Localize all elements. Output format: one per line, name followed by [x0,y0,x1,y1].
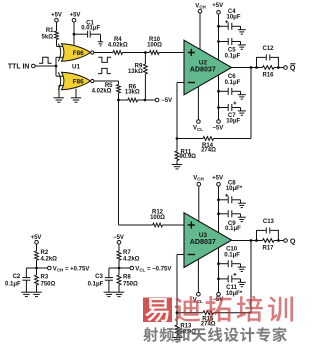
svg-text:10μF*: 10μF* [226,291,243,297]
svg-text:10μF*: 10μF* [226,186,243,192]
svg-text:0.1μF: 0.1μF [225,80,241,86]
svg-text:+5V: +5V [212,3,223,9]
svg-text:0.01μF: 0.01μF [81,26,100,32]
svg-text:13kΩ: 13kΩ [125,89,140,95]
svg-text:+5V: +5V [70,13,81,19]
svg-text:10μF: 10μF [226,119,240,125]
svg-text:+5V: +5V [51,13,62,19]
svg-text:274Ω: 274Ω [201,322,216,328]
svg-text:C2: C2 [13,274,21,280]
svg-text:0.1μF: 0.1μF [5,281,21,287]
svg-text:0.1μF: 0.1μF [224,253,240,259]
svg-text:+5V: +5V [31,235,42,241]
svg-text:0.1μF: 0.1μF [225,54,241,60]
svg-text:4.02kΩ: 4.02kΩ [108,43,128,49]
svg-text:R16: R16 [262,73,274,79]
svg-text:C10: C10 [226,246,238,252]
svg-text:C3: C3 [95,274,103,280]
svg-text:AD8037: AD8037 [190,66,216,74]
svg-text:4.2kΩ: 4.2kΩ [41,257,58,263]
svg-text:R1: R1 [46,28,54,34]
svg-text:TTL IN: TTL IN [8,63,30,70]
svg-text:VCH: VCH [195,3,206,9]
svg-text:F86: F86 [73,50,84,57]
svg-text:F86: F86 [73,78,84,85]
svg-text:C5: C5 [228,47,236,53]
svg-text:13kΩ: 13kΩ [128,69,143,75]
svg-text:Q: Q [290,63,296,72]
svg-text:Q: Q [290,236,296,245]
svg-text:−5V: −5V [113,235,124,241]
svg-text:0.1μF: 0.1μF [225,226,241,232]
svg-text:R8: R8 [123,275,131,281]
svg-text:C12: C12 [262,46,274,52]
svg-text:VCH = +0.75V: VCH = +0.75V [53,266,90,272]
svg-text:90.9Ω: 90.9Ω [180,154,197,160]
svg-text:C13: C13 [263,219,275,225]
svg-text:AD8037: AD8037 [190,238,216,246]
svg-text:4.2kΩ: 4.2kΩ [123,257,140,263]
svg-text:100Ω: 100Ω [147,43,162,49]
svg-text:−5V: −5V [212,125,223,131]
svg-text:C11: C11 [226,285,237,291]
svg-text:274Ω: 274Ω [201,148,216,154]
svg-text:R7: R7 [123,250,131,256]
svg-text:R17: R17 [262,246,274,252]
svg-text:VCH: VCH [193,175,204,181]
svg-text:R2: R2 [41,250,49,256]
svg-text:U1: U1 [72,63,80,70]
svg-text:100Ω: 100Ω [150,215,165,221]
svg-text:0.1μF: 0.1μF [88,281,104,287]
svg-text:10μF: 10μF [226,15,240,21]
svg-text:+5V: +5V [212,175,223,181]
svg-text:C6: C6 [228,74,236,80]
svg-text:−5V: −5V [161,98,172,104]
svg-text:5kΩ: 5kΩ [42,35,54,41]
svg-text:750Ω: 750Ω [41,282,56,288]
svg-text:750Ω: 750Ω [123,282,138,288]
svg-text:VCL: VCL [193,126,203,132]
svg-text:R3: R3 [41,275,49,281]
svg-text:4.02kΩ: 4.02kΩ [92,89,112,95]
svg-text:VCL = −0.75V: VCL = −0.75V [135,266,171,272]
